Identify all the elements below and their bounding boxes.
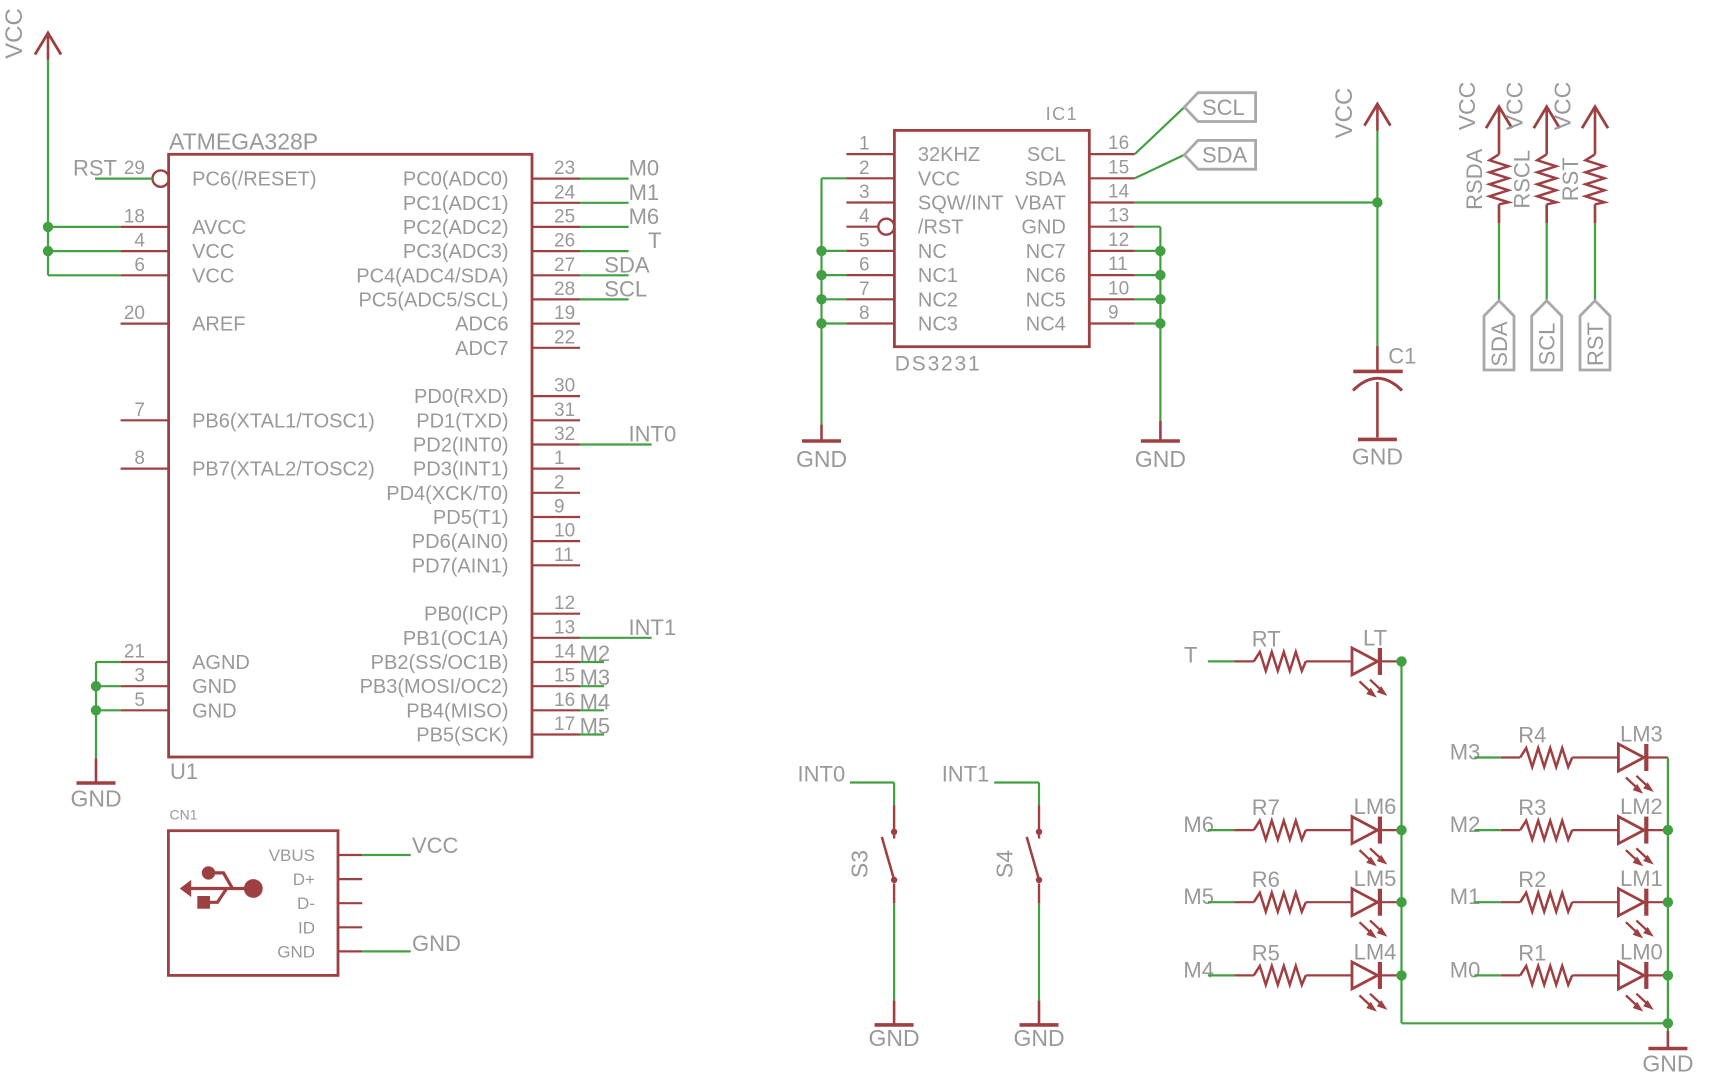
wire M4 <box>1208 974 1234 976</box>
svg-text:GND: GND <box>1135 446 1186 472</box>
svg-text:1: 1 <box>554 448 565 469</box>
svg-text:VCC: VCC <box>918 168 960 190</box>
pin 15 SDA <box>1025 157 1135 190</box>
svg-text:GND: GND <box>412 931 461 956</box>
svg-text:SDA: SDA <box>1025 168 1067 190</box>
LED LM6 <box>1352 794 1396 866</box>
wire <box>1647 901 1668 903</box>
svg-text:R1: R1 <box>1518 940 1546 965</box>
svg-text:5: 5 <box>859 230 870 251</box>
svg-text:PC3(ADC3): PC3(ADC3) <box>403 241 509 263</box>
pin 5 GND <box>121 690 237 723</box>
wire M6 <box>1208 829 1234 831</box>
resistor RT <box>1252 626 1306 671</box>
pin 8 PB7(XTAL2/TOSC2) <box>121 448 375 481</box>
supply VCC (top-left) <box>35 33 61 60</box>
junction <box>1155 270 1165 280</box>
svg-text:R5: R5 <box>1252 940 1280 965</box>
wire <box>1572 829 1618 831</box>
supply VCC (C1) <box>1364 104 1390 131</box>
svg-text:R2: R2 <box>1518 867 1546 892</box>
pin 3 GND <box>121 666 237 699</box>
wire <box>1498 223 1500 300</box>
svg-text:4: 4 <box>859 206 870 227</box>
net flag SCL <box>1532 301 1562 370</box>
resistor R7 <box>1252 795 1306 840</box>
svg-text:INT1: INT1 <box>629 615 677 640</box>
svg-text:PD2(INT0): PD2(INT0) <box>413 435 509 457</box>
svg-text:GND: GND <box>796 446 847 472</box>
wire <box>1381 974 1402 976</box>
pin 14 PB2(SS/OC1B) <box>371 642 580 675</box>
svg-text:3: 3 <box>134 666 145 687</box>
LED LM0 <box>1618 939 1662 1011</box>
svg-text:PB6(XTAL1/TOSC1): PB6(XTAL1/TOSC1) <box>192 410 375 432</box>
junction <box>1663 970 1673 980</box>
svg-text:26: 26 <box>554 231 575 252</box>
svg-text:PC0(ADC0): PC0(ADC0) <box>403 169 509 191</box>
pin 1 32KHZ <box>846 134 980 167</box>
svg-text:VBUS: VBUS <box>269 846 315 865</box>
IC IC1 DS3231 box <box>894 104 1089 376</box>
svg-text:23: 23 <box>554 158 575 179</box>
pin 23 PC0(ADC0) <box>403 158 580 191</box>
svg-text:RSCL: RSCL <box>1510 150 1535 209</box>
svg-text:10: 10 <box>1108 278 1129 299</box>
svg-text:NC6: NC6 <box>1026 265 1066 287</box>
svg-text:M5: M5 <box>580 714 611 739</box>
resistor RST <box>1558 154 1605 204</box>
svg-text:AREF: AREF <box>192 314 245 336</box>
svg-text:VBAT: VBAT <box>1015 193 1066 215</box>
ground (S3) <box>869 1025 920 1051</box>
svg-text:7: 7 <box>859 279 870 300</box>
svg-text:ADC6: ADC6 <box>455 314 508 336</box>
pin 15 PB3(MOSI/OC2) <box>360 666 580 699</box>
wire M1 <box>1474 901 1500 903</box>
pin VBUS <box>269 846 362 865</box>
ground stem <box>820 424 823 441</box>
svg-text:31: 31 <box>554 400 575 421</box>
wire <box>1234 901 1253 903</box>
pin 11 PD7(AIN1) <box>412 545 580 578</box>
pin 28 PC5(ADC5/SCL) <box>358 279 580 312</box>
wire <box>1306 660 1352 662</box>
pin 7 NC2 <box>846 279 958 312</box>
wire <box>1572 974 1618 976</box>
wire to VCC pin4 <box>48 250 121 252</box>
svg-text:14: 14 <box>554 642 576 663</box>
svg-text:RST: RST <box>73 156 117 181</box>
svg-text:PD4(XCK/T0): PD4(XCK/T0) <box>386 483 508 505</box>
pin 27 PC4(ADC4/SDA) <box>356 255 580 288</box>
svg-text:PC2(ADC2): PC2(ADC2) <box>403 217 509 239</box>
svg-text:VCC: VCC <box>192 241 234 263</box>
wire <box>1545 204 1548 223</box>
pin 5 NC <box>846 230 946 263</box>
wire AGND/GND bus <box>96 662 121 758</box>
svg-text:GND: GND <box>192 676 236 698</box>
wire to ground <box>1667 1023 1669 1031</box>
wire <box>1647 756 1668 758</box>
pin 11 NC6 <box>1026 254 1135 287</box>
svg-text:7: 7 <box>134 400 145 421</box>
wire net INT0 <box>580 443 652 445</box>
ground stem <box>1038 1001 1041 1025</box>
svg-text:27: 27 <box>554 255 575 276</box>
svg-text:NC7: NC7 <box>1026 241 1066 263</box>
resistor R5 <box>1252 940 1306 985</box>
svg-text:C1: C1 <box>1388 344 1416 369</box>
pin 20 AREF <box>121 303 246 336</box>
svg-text:DS3231: DS3231 <box>895 353 982 376</box>
svg-text:GND: GND <box>192 700 236 722</box>
pin 13 GND <box>1021 206 1134 239</box>
junction <box>91 705 101 715</box>
svg-text:24: 24 <box>554 182 576 203</box>
pin 19 ADC6 <box>455 303 580 336</box>
svg-text:D-: D- <box>297 894 315 913</box>
wire net INT1 <box>580 637 652 639</box>
pin 6 NC1 <box>846 255 958 288</box>
svg-text:3: 3 <box>859 182 870 203</box>
svg-text:SCL: SCL <box>1027 144 1066 166</box>
svg-text:RST: RST <box>1558 157 1583 201</box>
svg-text:M3: M3 <box>580 665 611 690</box>
wire net M4 <box>580 709 604 711</box>
wire <box>1501 974 1520 976</box>
svg-text:M3: M3 <box>1450 740 1481 765</box>
ground stem <box>1667 1031 1670 1049</box>
svg-text:16: 16 <box>1108 133 1129 154</box>
svg-text:M4: M4 <box>1183 957 1214 982</box>
ground (IC1 left) <box>796 441 847 472</box>
svg-text:SQW/INT: SQW/INT <box>918 193 1004 215</box>
net flag SCL <box>1184 93 1255 122</box>
wire to ground <box>1038 903 1040 1000</box>
svg-text:IC1: IC1 <box>1046 104 1079 124</box>
wire <box>1546 223 1548 300</box>
svg-text:M0: M0 <box>629 156 660 181</box>
svg-text:VCC: VCC <box>1550 82 1576 131</box>
wire M3 <box>1474 756 1500 758</box>
pin 6 VCC <box>121 255 235 288</box>
svg-text:LM2: LM2 <box>1620 794 1663 819</box>
svg-text:VCC: VCC <box>412 833 459 858</box>
svg-text:GND: GND <box>1013 1025 1064 1051</box>
pin 12 NC7 <box>1026 230 1135 263</box>
wire <box>1498 204 1501 223</box>
svg-text:T: T <box>1184 642 1197 667</box>
ground stem <box>1159 421 1162 441</box>
svg-text:PB1(OC1A): PB1(OC1A) <box>403 628 509 650</box>
wire <box>1381 901 1402 903</box>
pin 17 PB5(SCK) <box>416 714 580 747</box>
svg-text:LT: LT <box>1363 625 1387 650</box>
svg-text:SDA: SDA <box>604 252 650 277</box>
svg-text:PB7(XTAL2/TOSC2): PB7(XTAL2/TOSC2) <box>192 459 375 481</box>
svg-text:U1: U1 <box>170 759 198 784</box>
svg-text:GND: GND <box>70 786 121 812</box>
svg-text:M4: M4 <box>580 689 611 714</box>
wire right LED bus <box>1667 758 1669 1024</box>
junction <box>1396 825 1406 835</box>
wire <box>1647 974 1668 976</box>
svg-text:R6: R6 <box>1252 867 1280 892</box>
wire GND <box>362 950 411 952</box>
wire <box>1381 829 1402 831</box>
svg-text:M0: M0 <box>1450 957 1481 982</box>
svg-text:SCL: SCL <box>1535 323 1560 366</box>
svg-text:GND: GND <box>1021 217 1065 239</box>
pin 25 PC2(ADC2) <box>403 206 580 239</box>
svg-text:15: 15 <box>1108 157 1129 178</box>
switch S4 <box>992 806 1043 904</box>
svg-text:17: 17 <box>554 714 575 735</box>
junction <box>1396 897 1406 907</box>
svg-text:GND: GND <box>277 942 315 961</box>
junction <box>816 270 826 280</box>
svg-text:20: 20 <box>124 303 145 324</box>
svg-text:32: 32 <box>554 424 575 445</box>
resistor R4 <box>1518 723 1572 768</box>
pin 1 PD3(INT1) <box>413 448 580 481</box>
USB icon <box>180 866 263 909</box>
wire VBUS-VCC <box>362 854 411 856</box>
svg-text:2: 2 <box>554 472 565 493</box>
junction <box>816 246 826 256</box>
net flag RST <box>1580 301 1610 370</box>
svg-text:SCL: SCL <box>604 276 647 301</box>
svg-text:AGND: AGND <box>192 652 250 674</box>
pin D- <box>297 894 362 913</box>
LED LM5 <box>1352 866 1396 938</box>
svg-text:30: 30 <box>554 376 575 397</box>
ground stem <box>95 758 98 783</box>
wire <box>1234 974 1253 976</box>
pin 9 PD5(T1) <box>433 497 580 530</box>
svg-text:LM5: LM5 <box>1354 866 1397 891</box>
svg-text:RST: RST <box>1583 322 1608 366</box>
wire <box>1306 829 1352 831</box>
svg-text:32KHZ: 32KHZ <box>918 144 980 166</box>
svg-text:LM3: LM3 <box>1620 722 1663 747</box>
svg-text:25: 25 <box>554 206 575 227</box>
wire VCC vertical <box>47 60 49 276</box>
pin 12 PB0(ICP) <box>424 593 580 626</box>
pin 2 PD4(XCK/T0) <box>386 472 580 505</box>
pin 24 PC1(ADC1) <box>403 182 580 215</box>
svg-text:9: 9 <box>554 497 565 518</box>
wire VCC to VBAT junction <box>1376 131 1378 347</box>
svg-text:NC4: NC4 <box>1026 314 1066 336</box>
svg-text:PC4(ADC4/SDA): PC4(ADC4/SDA) <box>356 265 508 287</box>
wire VBAT to VCC/C1 <box>1135 201 1378 203</box>
wire net SCL <box>580 298 629 300</box>
svg-text:11: 11 <box>554 545 574 566</box>
pin 30 PD0(RXD) <box>414 376 580 409</box>
LED LM1 <box>1618 866 1662 938</box>
svg-text:NC5: NC5 <box>1026 289 1066 311</box>
svg-text:29: 29 <box>124 158 145 179</box>
junction <box>816 318 826 328</box>
svg-text:6: 6 <box>859 255 870 276</box>
pin 31 PD1(TXD) <box>416 400 580 433</box>
wire M5 <box>1208 901 1234 903</box>
wire <box>1501 756 1520 758</box>
svg-text:1: 1 <box>859 134 870 155</box>
ground (IC1 right) <box>1135 441 1186 472</box>
pin 32 PD2(INT0) <box>413 424 580 457</box>
svg-text:PD5(T1): PD5(T1) <box>433 507 509 529</box>
svg-text:11: 11 <box>1108 254 1128 275</box>
LED LM2 <box>1618 794 1662 866</box>
svg-text:19: 19 <box>554 303 575 324</box>
resistor RSDA <box>1462 148 1509 209</box>
pin 16 PB4(MISO) <box>406 690 580 723</box>
pin GND <box>277 942 362 961</box>
svg-text:S3: S3 <box>847 850 873 878</box>
svg-text:INT0: INT0 <box>629 422 677 447</box>
svg-text:SDA: SDA <box>1202 143 1248 168</box>
pin 18 AVCC <box>121 206 247 239</box>
svg-text:PC6(/RESET): PC6(/RESET) <box>192 169 316 191</box>
svg-text:M2: M2 <box>580 641 611 666</box>
svg-text:VCC: VCC <box>1 8 28 59</box>
junction <box>43 222 53 232</box>
resistor R3 <box>1518 795 1572 840</box>
junction <box>1663 825 1673 835</box>
pin 9 NC4 <box>1026 303 1135 336</box>
wire VCC pin2 bus <box>822 178 847 424</box>
wire INT0 <box>850 783 894 806</box>
pin 2 VCC <box>846 158 960 191</box>
svg-text:M6: M6 <box>1183 812 1214 837</box>
pin 10 PD6(AIN0) <box>412 521 580 554</box>
wire M2 <box>1474 829 1500 831</box>
resistor R1 <box>1518 940 1572 985</box>
svg-text:LM0: LM0 <box>1620 939 1663 964</box>
wire to AVCC pin18 <box>48 226 121 228</box>
pin 7 PB6(XTAL1/TOSC1) <box>121 400 375 433</box>
supply VCC (RSCL) <box>1534 107 1560 134</box>
supply VCC (RSDA) <box>1486 107 1512 134</box>
svg-text:14: 14 <box>1108 182 1130 203</box>
svg-text:12: 12 <box>554 593 575 614</box>
pin 21 AGND <box>121 642 250 675</box>
capacitor C1 <box>1353 344 1416 438</box>
svg-text:NC: NC <box>918 241 947 263</box>
svg-text:R4: R4 <box>1518 723 1546 748</box>
svg-text:PD0(RXD): PD0(RXD) <box>414 386 508 408</box>
LED LT <box>1352 625 1387 697</box>
svg-text:PB0(ICP): PB0(ICP) <box>424 604 508 626</box>
svg-text:2: 2 <box>859 158 870 179</box>
wire net M2 <box>580 661 604 663</box>
wire net M3 <box>580 685 604 687</box>
LED LM3 <box>1618 722 1662 794</box>
svg-text:GND: GND <box>869 1025 920 1051</box>
svg-text:M6: M6 <box>629 204 660 229</box>
svg-text:5: 5 <box>134 690 145 711</box>
wire <box>1234 660 1253 662</box>
wire <box>1594 204 1597 223</box>
svg-text:PD1(TXD): PD1(TXD) <box>416 410 508 432</box>
svg-text:INT0: INT0 <box>798 762 846 787</box>
svg-text:8: 8 <box>859 303 870 324</box>
svg-text:6: 6 <box>134 255 145 276</box>
svg-text:INT1: INT1 <box>942 762 990 787</box>
wire INT1 <box>994 783 1039 806</box>
wire left LED bus <box>1402 661 1668 1023</box>
pin ID <box>298 918 362 937</box>
svg-text:12: 12 <box>1108 230 1129 251</box>
pin 4 VCC <box>121 231 235 264</box>
svg-text:LM4: LM4 <box>1354 939 1397 964</box>
svg-text:M1: M1 <box>629 180 660 205</box>
wire <box>1381 660 1402 662</box>
junction <box>1396 970 1406 980</box>
svg-text:D+: D+ <box>293 870 315 889</box>
pin 8 NC3 <box>846 303 958 336</box>
svg-text:PB4(MISO): PB4(MISO) <box>406 700 508 722</box>
pin 26 PC3(ADC3) <box>403 231 580 264</box>
pin 3 SQW/INT <box>846 182 1003 215</box>
svg-text:PD3(INT1): PD3(INT1) <box>413 459 509 481</box>
svg-text:RT: RT <box>1252 626 1281 651</box>
svg-text:S4: S4 <box>992 850 1018 878</box>
resistor R2 <box>1518 867 1572 912</box>
svg-text:NC2: NC2 <box>918 289 958 311</box>
svg-text:AVCC: AVCC <box>192 217 246 239</box>
ground (S4) <box>1013 1025 1064 1051</box>
svg-text:M5: M5 <box>1183 884 1214 909</box>
wire T <box>1208 660 1234 662</box>
wire net M5 <box>580 733 604 735</box>
wire net T <box>580 250 629 252</box>
pin 10 NC5 <box>1026 278 1135 311</box>
junction <box>43 246 53 256</box>
svg-text:SDA: SDA <box>1487 321 1512 367</box>
wire net SDA <box>580 274 629 276</box>
wire <box>1647 829 1668 831</box>
svg-text:10: 10 <box>554 521 575 542</box>
IC U1 ATMEGA328P box <box>169 129 532 785</box>
wire <box>1501 829 1520 831</box>
wire net M0 <box>580 178 629 180</box>
wire M0 <box>1474 974 1500 976</box>
svg-text:CN1: CN1 <box>170 807 198 823</box>
wire net M1 <box>580 202 629 204</box>
svg-text:LM1: LM1 <box>1620 866 1663 891</box>
wire <box>1501 901 1520 903</box>
svg-text:16: 16 <box>554 690 575 711</box>
switch S3 <box>847 806 898 904</box>
svg-text:VCC: VCC <box>192 265 234 287</box>
svg-text:NC1: NC1 <box>918 265 958 287</box>
pin 29 PC6(/RESET) <box>124 158 317 191</box>
svg-text:8: 8 <box>134 448 145 469</box>
LED LM4 <box>1352 939 1396 1011</box>
junction <box>1155 294 1165 304</box>
svg-text:13: 13 <box>1108 206 1129 227</box>
wire SCL diagonal <box>1135 107 1185 154</box>
resistor R6 <box>1252 867 1306 912</box>
svg-text:ADC7: ADC7 <box>455 338 508 360</box>
svg-text:M1: M1 <box>1450 884 1481 909</box>
wire SDA diagonal <box>1135 155 1185 179</box>
svg-text:LM6: LM6 <box>1354 794 1397 819</box>
